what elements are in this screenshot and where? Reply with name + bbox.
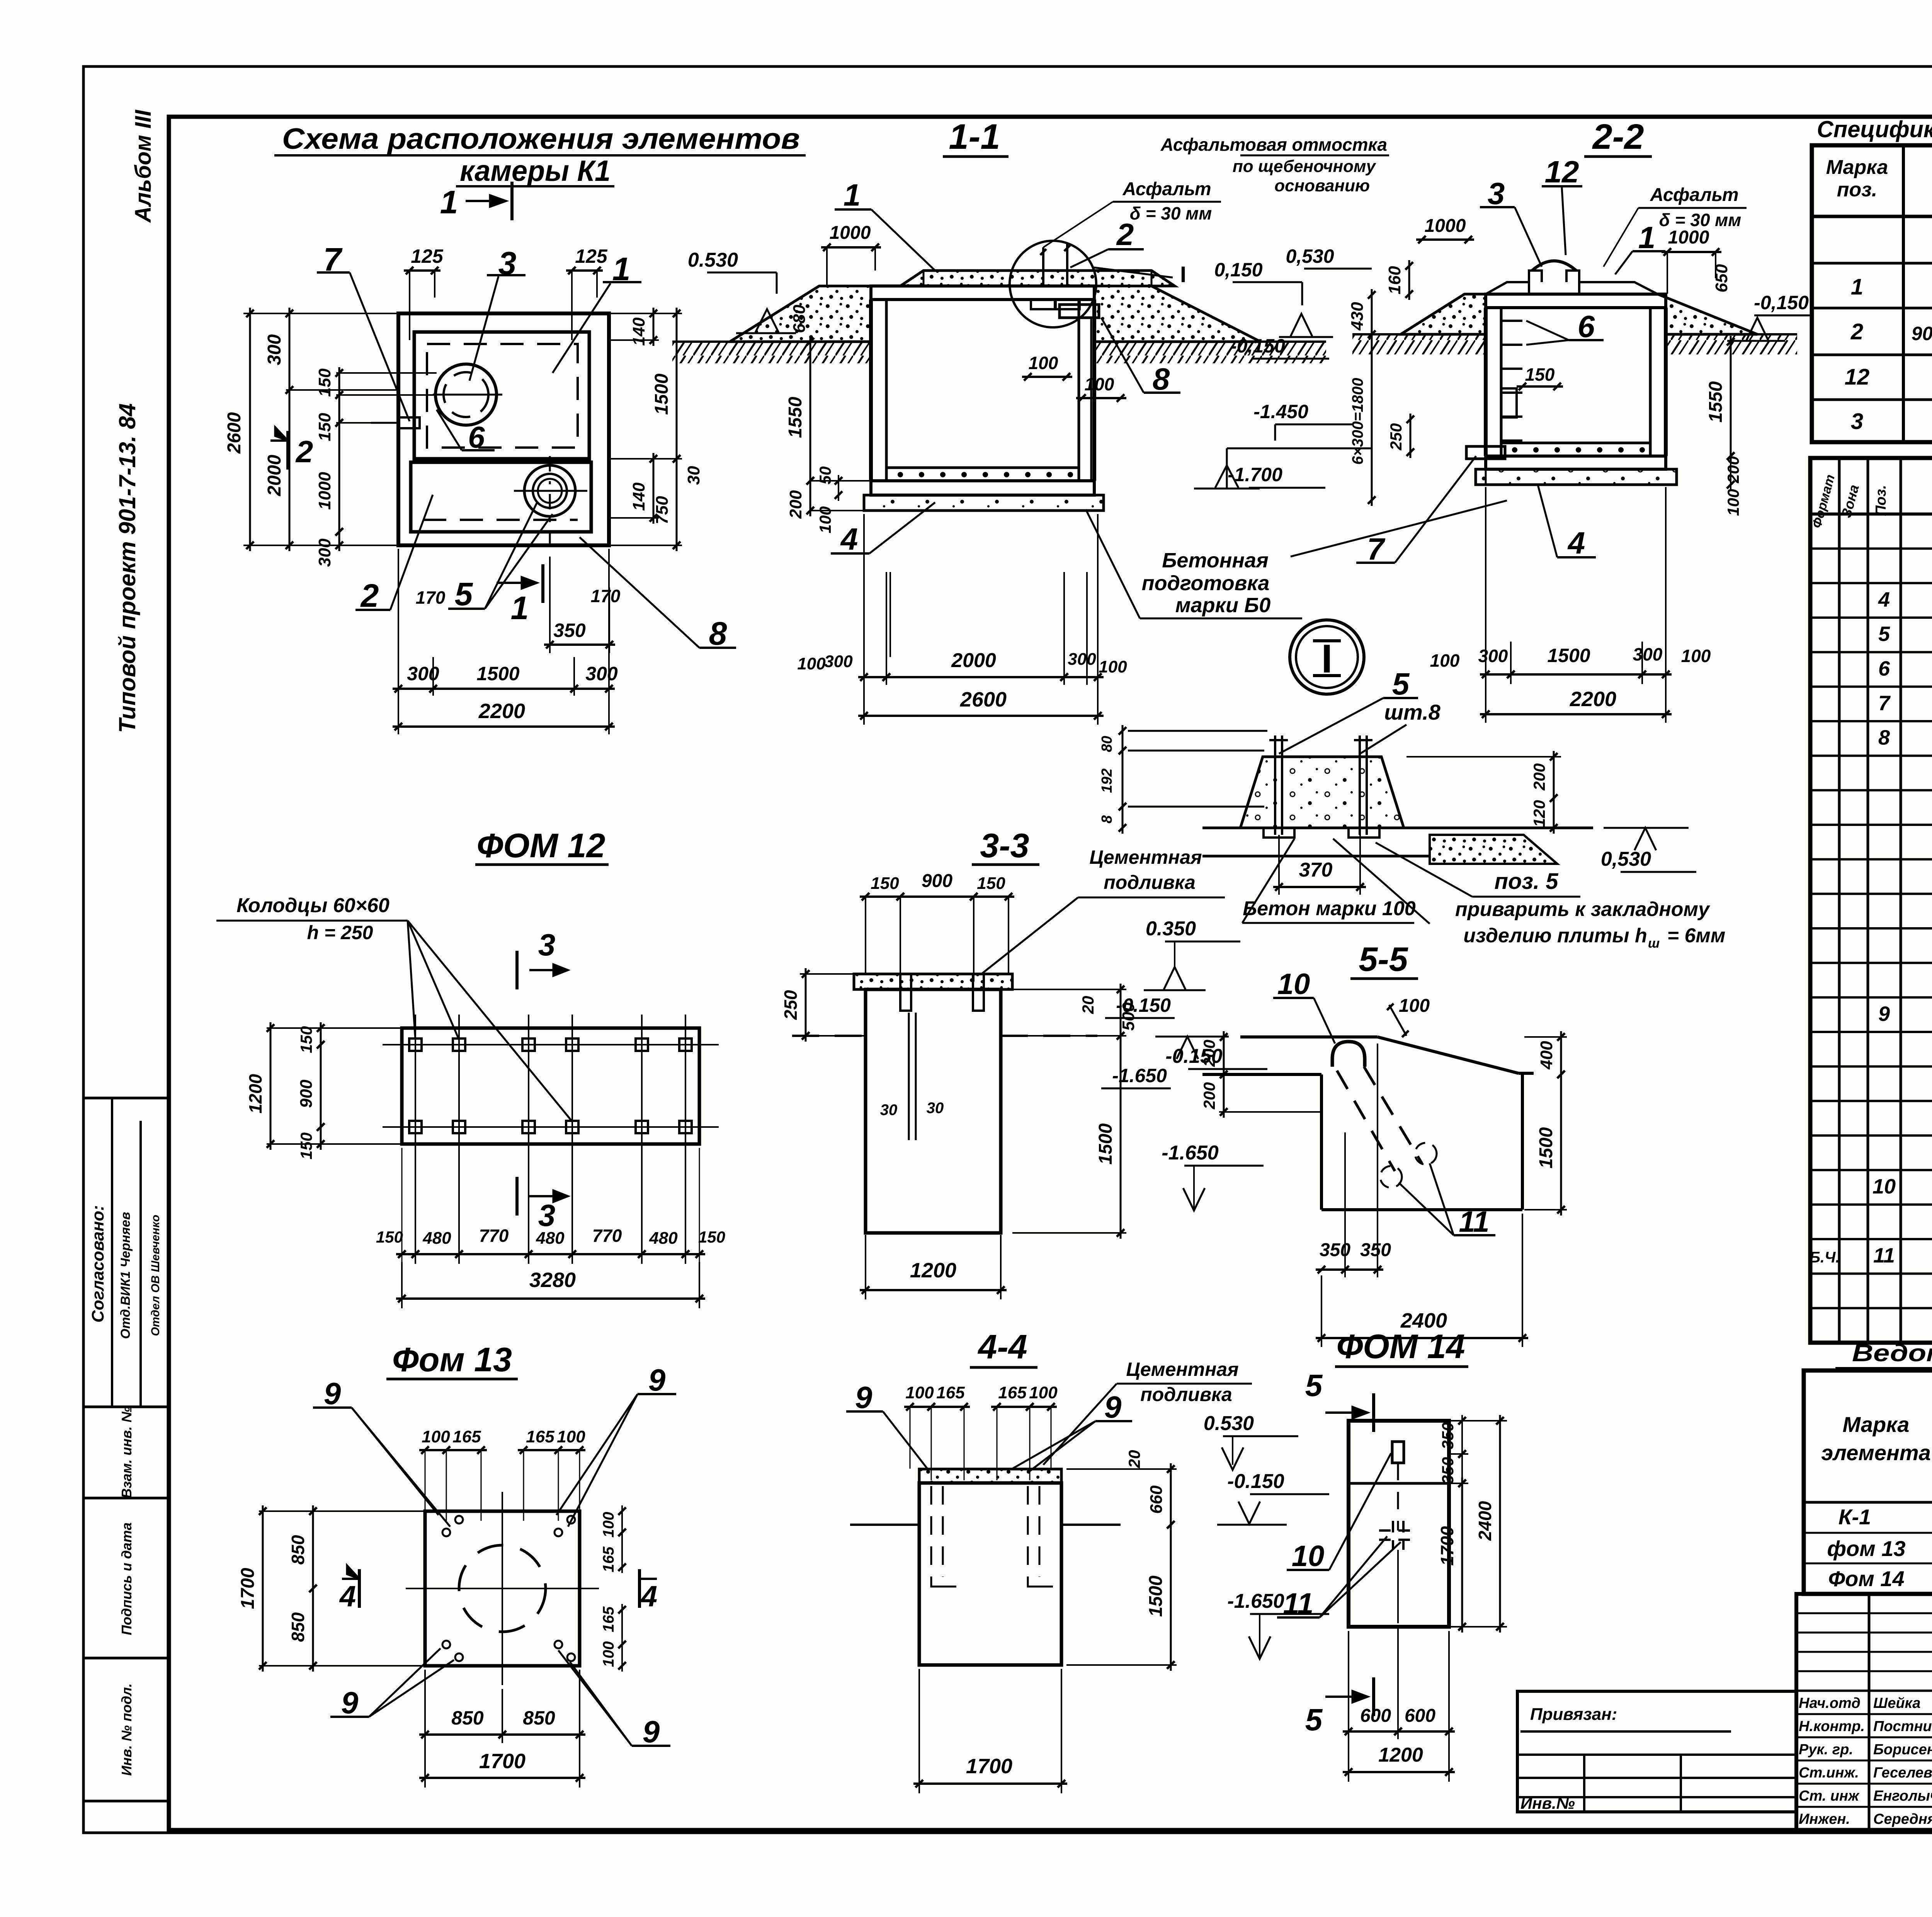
svg-text:430: 430 [1348,302,1367,331]
svg-text:7: 7 [1367,532,1386,566]
svg-text:1700: 1700 [1437,1526,1457,1566]
svg-text:Енголычева: Енголычева [1873,1788,1932,1804]
section 1-1 elevation -0,150 [1230,335,1329,359]
svg-text:0.350: 0.350 [1146,918,1196,940]
detail pos5 rubble strip right [1430,835,1557,864]
svg-text:Н.контр.: Н.контр. [1799,1718,1865,1735]
section 4-4 elevation -1.650 [1227,1590,1329,1659]
section 1-1 title [943,117,1009,157]
svg-text:К-1: К-1 [1838,1505,1871,1529]
svg-text:Инв.№: Инв.№ [1520,1794,1575,1812]
svg-text:h = 250: h = 250 [307,922,373,943]
section 2-2 ground hatch left [1352,334,1486,354]
svg-text:9: 9 [324,1376,341,1411]
section 2-2 ground hatch right [1666,334,1797,354]
detail circle I symbol [1290,620,1364,694]
svg-text:1550: 1550 [785,397,806,438]
svg-text:2400: 2400 [1475,1501,1495,1541]
svg-text:1200: 1200 [245,1074,265,1113]
parts table row 5 МН5 [1878,623,1932,646]
svg-text:9: 9 [643,1714,660,1749]
svg-text:ФОМ 12: ФОМ 12 [477,826,605,865]
svg-text:6: 6 [1578,309,1595,344]
section 4-4 elevation -0.150 [1217,1470,1329,1525]
svg-text:3: 3 [538,1198,556,1233]
svg-text:480: 480 [649,1229,678,1248]
spec table row 12 Кольца опорное КЦО1 [1845,364,1932,390]
svg-text:-0.150: -0.150 [1227,1470,1284,1493]
svg-text:-1.650: -1.650 [1227,1590,1284,1612]
svg-text:200: 200 [786,490,805,519]
svg-text:-0.150: -0.150 [1116,994,1171,1016]
svg-text:1: 1 [440,184,458,220]
svg-text:1700: 1700 [238,1568,258,1609]
section 2-2 floor rebar dots [1513,448,1644,452]
svg-text:120: 120 [1530,800,1548,827]
svg-text:0,530: 0,530 [1601,848,1651,870]
section 1-1 label Асфальт б=30мм [1043,179,1221,247]
plan right dimension chain 140 1500 140 750 30 [609,308,703,551]
svg-text:900: 900 [922,871,952,891]
svg-text:350: 350 [1439,1422,1457,1449]
spec table header texts [1826,156,1932,201]
svg-text:1200: 1200 [1378,1744,1423,1766]
svg-text:8: 8 [1153,362,1170,396]
section 1-1/2-2 middle dimension chain 430 6x300=1800 250 [1348,289,1414,506]
svg-text:3: 3 [1851,409,1863,434]
spec table row 2 П15д-8-А [1850,319,1932,344]
plan bottom dimension chain 170 350 170 [416,557,621,653]
FOM13 left dim chain 850 850 1700 [238,1505,425,1672]
plan view lower compartment slab PO3 [411,462,591,532]
FOM14 bottom dims 600 600 1200 [1343,1627,1455,1782]
svg-text:2: 2 [360,577,379,614]
section 5-5 dim 100 slanted [1387,996,1430,1037]
section 2-2 pipe pos 7 left [1466,446,1505,485]
section 1-1 left embankment with gravel [730,286,871,342]
title block signature grid [1796,1594,1932,1830]
svg-text:4: 4 [840,522,858,556]
svg-text:Нач.отд: Нач.отд [1799,1695,1861,1711]
svg-text:основанию: основанию [1274,176,1370,195]
FOM12 label Колодцы 60х60 h=250 [216,894,572,1122]
svg-text:δ = 30 мм: δ = 30 мм [1130,203,1212,223]
svg-text:Подпись и дата: Подпись и дата [119,1522,134,1635]
section 1-1 detail circle I [1010,241,1186,327]
svg-text:Отд.ВИК1 Черняев: Отд.ВИК1 Черняев [118,1212,133,1339]
svg-text:1000: 1000 [315,472,334,510]
section 4-4 pedestal [919,1469,1061,1665]
svg-text:0.530: 0.530 [1204,1412,1254,1435]
svg-text:1000: 1000 [1668,227,1709,248]
FOM13 leader 9 bottom-right [558,1650,670,1749]
svg-text:2200: 2200 [478,700,525,723]
svg-text:Цементная: Цементная [1089,846,1202,868]
svg-text:1: 1 [1638,220,1656,255]
svg-text:30: 30 [684,466,703,485]
section 4-4 elevation 0.530 [1204,1412,1298,1470]
svg-text:Марка: Марка [1843,1412,1910,1437]
FOM12 section mark 3 bottom [517,1177,568,1233]
svg-text:300: 300 [824,652,853,671]
section 4-4 label Цементная подливка [1043,1359,1252,1465]
svg-text:4-4: 4-4 [977,1328,1027,1366]
svg-text:Цементная: Цементная [1126,1359,1238,1380]
section 4-4 top dims 100 165 165 100 [904,1383,1058,1480]
plan top dimension 125 right [566,245,608,340]
parts table header texts [1810,473,1932,530]
FOM13 leader 9 top-right [556,1363,676,1527]
section 2-2 ladder rungs [1501,321,1522,441]
svg-text:1: 1 [844,178,861,212]
svg-text:4: 4 [339,1580,356,1613]
steel table title [1835,1340,1932,1368]
svg-text:170: 170 [591,586,621,606]
svg-text:5: 5 [1878,623,1890,646]
svg-text:-1.650: -1.650 [1162,1142,1219,1164]
svg-text:5: 5 [1392,667,1410,701]
FOM12 total dimension 3280 [396,1262,705,1308]
svg-text:элемента: элемента [1821,1440,1930,1465]
svg-text:150: 150 [977,874,1005,893]
section 2-2 embedded 150 mark [1501,364,1563,417]
section 5-5 title [1350,940,1418,979]
plan leader 3 [469,245,526,381]
section 2-2 bottom dims 100 300 1500 300 100 / 2200 [1430,487,1711,723]
svg-text:0,530: 0,530 [1286,245,1334,267]
svg-text:Геселева: Геселева [1873,1765,1932,1781]
section 1-1 ground hatch right [1094,342,1326,363]
section 4-4 dashed anchor channels [931,1486,1053,1587]
svg-text:5: 5 [455,576,473,612]
svg-text:ФОМ 14: ФОМ 14 [1337,1327,1465,1365]
svg-text:20: 20 [1125,1450,1143,1469]
svg-text:2000: 2000 [951,649,996,672]
section 2-2 leader 12 [1542,155,1582,255]
svg-text:600: 600 [1360,1706,1391,1726]
svg-text:300: 300 [407,663,439,684]
FOM14 plan rectangle [1349,1421,1449,1627]
title block outline [1796,1594,1932,1830]
steel table header texts [1821,1376,1932,1498]
left margin label: Типовой проект 901-7-13.84 (rotated) [114,403,140,733]
svg-text:350: 350 [1439,1457,1457,1484]
svg-text:подливка: подливка [1104,872,1196,893]
plan leader 8 [580,537,736,652]
svg-text:Инжен.: Инжен. [1799,1811,1850,1827]
plan inner left dimensions 150 150 1000 300 [315,367,437,567]
FOM14 leader 10 [1287,1453,1391,1573]
svg-text:0,150: 0,150 [1214,259,1262,281]
svg-text:200: 200 [1724,456,1742,484]
svg-text:5: 5 [1305,1702,1323,1737]
svg-text:165: 165 [936,1383,965,1402]
main title: Схема расположения элементов камеры К1 [274,123,806,187]
section 3-3 label Цементная подливка [981,846,1225,974]
section 2-2 left embankment [1401,294,1486,334]
svg-text:850: 850 [288,1612,308,1642]
plan section mark 1 bottom [497,564,543,626]
title block signature texts [1799,1695,1932,1827]
svg-text:Бетонная: Бетонная [1162,549,1269,572]
plan view upper compartment slab P15d-8-A [414,332,589,459]
svg-text:770: 770 [479,1226,509,1246]
svg-text:по щебеночному: по щебеночному [1233,157,1377,176]
section 2-2 leader 6 rungs [1526,309,1604,345]
svg-text:1-1: 1-1 [949,117,1000,157]
section 3-3 ground dash line [792,1035,1097,1037]
FOM13 top dims 100 165 165 100 [419,1427,585,1521]
section 2-2 right embankment [1658,294,1757,334]
svg-text:Рук. гр.: Рук. гр. [1799,1742,1853,1758]
parts table row 11 Ф22АIII [1810,1244,1932,1267]
svg-text:9: 9 [855,1380,872,1415]
svg-text:100: 100 [422,1427,450,1446]
svg-text:-0,150: -0,150 [1754,292,1809,313]
svg-text:изделию плиты h: изделию плиты h [1463,924,1647,947]
left margin stamp box Согласовано [83,1098,169,1407]
section 4-4 ground line dashes [850,1524,1121,1526]
svg-text:1500: 1500 [1536,1127,1556,1168]
section 3-3 pedestal [854,974,1012,1233]
section 1-1 elevation -1.450 [1253,401,1352,441]
svg-text:приварить к закладному: приварить к закладному [1455,898,1711,921]
left margin box Взам.инв.№ [83,1406,169,1498]
section 5-5 total dim 2400 [1316,1214,1528,1347]
section 2-2 chamber structure [1486,261,1666,469]
section 3-3 top dimensions 150 900 150 [860,871,1014,982]
svg-text:Ст.инж.: Ст.инж. [1799,1765,1859,1781]
svg-text:300: 300 [1068,650,1096,669]
section 2-2 leader 7 [1356,456,1476,566]
svg-text:650: 650 [1712,264,1731,293]
svg-text:2: 2 [1850,319,1863,344]
FOM13 section mark 4 left [339,1565,359,1613]
svg-text:480: 480 [422,1229,451,1248]
svg-text:Фом 14: Фом 14 [1828,1566,1904,1591]
svg-text:30: 30 [927,1100,944,1117]
svg-text:100: 100 [1430,650,1460,671]
svg-text:3-3: 3-3 [980,826,1029,865]
svg-text:350: 350 [553,620,586,641]
section 4-4 dims 20 660 1500 [1066,1450,1177,1671]
svg-text:100: 100 [905,1383,934,1402]
svg-text:4: 4 [1567,526,1585,560]
svg-text:750: 750 [653,496,672,524]
plan leader 1 [553,251,641,373]
svg-text:350: 350 [1320,1240,1350,1260]
svg-text:100: 100 [1681,646,1711,666]
plan leader 5 with arrows [448,502,553,612]
svg-text:Привязан:: Привязан: [1530,1705,1617,1724]
parts table row 10 МН7 [1872,1175,1932,1198]
svg-text:Асфальт: Асфальт [1122,179,1211,199]
svg-text:350: 350 [1360,1240,1391,1260]
svg-text:850: 850 [523,1707,555,1729]
svg-text:1: 1 [1851,274,1863,300]
svg-text:100: 100 [797,654,826,673]
parts table row 4 ГОСТ 23279-78 [1878,583,1932,613]
section 1-1 anchor bolts in detail [1031,243,1080,309]
svg-text:Спецификация к схеме расположе: Спецификация к схеме расположения элемен… [1817,116,1932,142]
svg-text:10: 10 [1872,1175,1896,1198]
section 3-3 bottom dimension 1200 [860,1235,1007,1299]
section 2-2 left dimension 160 1000 [1385,216,1474,300]
svg-text:100: 100 [1029,353,1058,373]
section 3-3 elevation -0.150 [1155,1037,1267,1069]
svg-text:150: 150 [315,413,334,441]
svg-text:100: 100 [1724,489,1742,516]
FOM14 section mark 5 bottom [1305,1677,1374,1737]
section 5-5 leader 11 [1399,1163,1495,1238]
svg-text:300: 300 [585,663,618,684]
section 2-2 right elevations 650 -0,150 [1712,264,1811,341]
svg-text:6: 6 [1878,657,1890,680]
section 5-5 right dims 400 1500 [1524,1031,1567,1216]
steel table row фом 13 [1827,1536,1932,1565]
svg-text:Колодцы 60×60: Колодцы 60×60 [236,894,389,917]
svg-text:Шейка: Шейка [1873,1695,1920,1711]
section 3-3 dims 20 500 right [1012,984,1138,1042]
plan bottom dimension chain 300 1500 300 / 2200 [393,549,618,734]
svg-text:100: 100 [600,1641,617,1667]
svg-text:192: 192 [1099,768,1115,793]
svg-text:165: 165 [600,1546,617,1572]
plan view pipe sleeve (pos 8) circle [514,456,587,549]
FOM12 section mark 3 top [517,928,568,989]
section 2-2 base slab concrete pad [1476,469,1677,485]
svg-text:150: 150 [698,1228,725,1246]
title block привязан table [1517,1691,1796,1812]
svg-text:2600: 2600 [224,412,245,454]
spec table title [1817,116,1932,142]
svg-text:9: 9 [1878,1002,1890,1025]
svg-text:480: 480 [536,1229,565,1248]
detail pos5 anchor bolts [1264,735,1379,838]
FOM14 leader 11 [1277,1536,1401,1620]
svg-text:300: 300 [264,334,285,365]
FOM12 title [475,826,609,865]
svg-text:3: 3 [1488,176,1505,211]
svg-text:2200: 2200 [1570,688,1616,711]
svg-text:165: 165 [600,1606,617,1632]
section 1-1 pipe pos 8 [1060,305,1099,479]
section 3-3 title [972,826,1039,865]
svg-text:5: 5 [1305,1368,1323,1403]
section 1-1 right embankment with gravel [1094,286,1260,342]
svg-text:1200: 1200 [910,1259,956,1282]
svg-text:150: 150 [297,1026,315,1053]
left margin box Инв.№ подл. [83,1683,169,1801]
svg-text:100: 100 [1399,996,1430,1016]
section 5-5 leader 10 [1273,968,1335,1044]
section 4-4 bottom dim 1700 [913,1669,1067,1793]
svg-text:1700: 1700 [966,1755,1012,1778]
svg-text:поз.: поз. [1837,179,1878,201]
FOM13 right dims 100 165 / 165 100 [600,1505,626,1672]
detail pos5 mound trapezoid with concrete fill [1240,757,1404,828]
svg-text:= 6мм: = 6мм [1667,924,1726,947]
svg-text:80: 80 [1099,736,1115,752]
parts table grid [1810,458,1932,1343]
section 4-4 leader 9 left [846,1380,927,1469]
section 2-2 label Асфальт б=30мм [1604,185,1747,267]
svg-text:-0,150: -0,150 [1230,335,1285,357]
svg-text:1500: 1500 [651,373,672,415]
svg-text:125: 125 [411,245,444,267]
section 3-3 embedded anchor dashed lines [880,1013,944,1140]
svg-text:150: 150 [297,1132,315,1159]
FOM12 axis lines [383,1015,719,1264]
svg-text:фом 13: фом 13 [1827,1536,1905,1561]
section 4-4 leader 9 right [1012,1390,1132,1473]
section 3-3 dim 1500 right [1012,1030,1126,1239]
steel table row K-1 [1838,1505,1932,1530]
svg-text:1500: 1500 [476,663,519,684]
FOM14 title [1335,1327,1468,1367]
section 1-1 leader 4 [831,502,935,556]
plan top dimension 125 left [404,245,444,340]
svg-text:150: 150 [871,874,899,893]
parts table row 7 труба 60 [1878,691,1932,715]
detail pos5 label Бетон марки 100 [1242,839,1416,923]
svg-text:150: 150 [315,368,334,397]
section 2-2 dimension 1000 right [1662,227,1721,294]
FOM13 corner bolts [442,1516,575,1661]
detail pos5 note поз.5 приварить к закладному изделию плиты [1333,839,1725,951]
section 1-1 floor rebar dots [898,473,1072,477]
steel table row Фом 14 [1828,1566,1932,1595]
FOM14 section mark 5 top [1305,1368,1374,1432]
section 1-1 ground hatch left [672,342,871,363]
section 1-1 leader 8 [1101,318,1180,396]
svg-text:200: 200 [1530,763,1548,791]
section 5-5 elevations left -0.150 -1.650 [1101,994,1175,1088]
section 2-2 leader 1 [1615,220,1665,274]
svg-text:8: 8 [709,615,727,652]
svg-text:Формат: Формат [1810,473,1838,530]
svg-text:Инв. № подл.: Инв. № подл. [119,1683,134,1776]
svg-text:Ст. инж: Ст. инж [1799,1788,1860,1804]
FOM14 anchor slot top [1392,1442,1404,1531]
svg-text:200: 200 [1200,1082,1218,1110]
section 5-5 dashed anchor strip diagonal [1337,1067,1437,1188]
svg-text:1500: 1500 [1547,645,1590,666]
section 1-1 dimension 100 100 near pipe [1022,353,1126,402]
svg-text:Альбом III: Альбом III [131,109,156,223]
svg-text:Середняк: Середняк [1873,1811,1932,1827]
plan view embedded item pos 7 mark [371,417,420,428]
svg-text:370: 370 [1299,859,1333,881]
svg-text:900: 900 [297,1079,316,1108]
svg-text:200: 200 [1200,1040,1218,1067]
svg-text:140: 140 [629,317,648,346]
parts table row 9 МН13 [1878,1002,1932,1025]
svg-text:1: 1 [511,590,529,626]
svg-text:901-7-13.4.6-КЖИ-П15д8А: 901-7-13.4.6-КЖИ-П15д8А [1912,323,1932,344]
svg-text:9: 9 [1104,1390,1122,1424]
svg-text:Поз.: Поз. [1873,485,1889,516]
section 5-5 footing body [1202,1037,1534,1210]
plan view manhole ring (pos 12) circle [433,364,502,425]
detail pos5 left reference lines with dims 80 192 8 [1099,725,1267,834]
svg-text:Ведомость расхода стали на оди: Ведомость расхода стали на один элемент,… [1852,1340,1932,1367]
svg-text:100: 100 [557,1427,585,1446]
svg-text:поз. 5: поз. 5 [1495,869,1559,894]
svg-text:I: I [1180,262,1186,287]
svg-text:770: 770 [592,1226,622,1246]
svg-text:подливка: подливка [1140,1384,1232,1405]
